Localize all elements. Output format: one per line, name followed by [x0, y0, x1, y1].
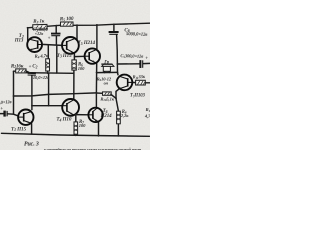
- svg-text:100: 100: [78, 66, 85, 71]
- wire T3 emitter to R6: [73, 53, 75, 60]
- wire T5 collector: [96, 25, 98, 49]
- wire C2 down / T1 collector: [31, 76, 33, 110]
- svg-text:Рис. 3: Рис. 3: [24, 142, 39, 148]
- node rail C6: [113, 24, 115, 26]
- wire R4 bottom: [47, 71, 49, 73]
- wire T1 emitter: [31, 124, 33, 134]
- wire C5 right to edge: [143, 62, 150, 64]
- wire T2 base to T3 base: [42, 44, 62, 45]
- svg-text:и приведена на рисунке схема у: и приведена на рисунке схема усилителя н…: [44, 147, 142, 150]
- resistor R3 hatch: [36, 26, 46, 29]
- svg-text:4,7: 4,7: [144, 114, 150, 119]
- node ground R8: [118, 135, 120, 137]
- wire T7 emitter vertical: [116, 89, 119, 99]
- svg-text:+: +: [29, 65, 32, 70]
- wire emitter bus y73: [26, 72, 74, 75]
- speaker Gr: [101, 64, 114, 71]
- transistor T3: [62, 37, 79, 54]
- wire T3 collector: [76, 25, 78, 40]
- node speaker bus T7 collector: [117, 72, 119, 74]
- wire R2 left vertical: [13, 71, 15, 96]
- wire input left: [0, 113, 4, 115]
- paper background: [0, 0, 150, 150]
- transistor T4: [62, 99, 79, 116]
- svg-text:R105,1к: R105,1к: [100, 96, 114, 102]
- resistor R4 vertical: [46, 59, 50, 71]
- node rail T3 collector: [76, 24, 78, 26]
- wire input to T1 base: [8, 114, 19, 116]
- wire T4 emitter to T6 base: [76, 114, 89, 116]
- capacitor C5 plates: [140, 60, 142, 68]
- wire x48.5 vertical: [48, 73, 50, 106]
- resistor R8 hatch: [117, 114, 120, 120]
- svg-text:П214: П214: [100, 114, 113, 119]
- wire R9 left: [96, 92, 102, 94]
- svg-text:R5 100: R5 100: [60, 16, 74, 22]
- wire C5 left: [117, 63, 139, 65]
- wire R2 lower vertical: [13, 96, 15, 114]
- transistor T2: [27, 37, 42, 52]
- svg-text:2,2к: 2,2к: [120, 113, 129, 118]
- resistor R3: [33, 24, 47, 29]
- wire R7 top: [75, 114, 77, 122]
- svg-text:Т7П103: Т7П103: [130, 94, 145, 99]
- wire bottom ground rail: [2, 133, 150, 136]
- svg-text:5000,0×12в: 5000,0×12в: [126, 32, 149, 38]
- resistor R7 vertical: [74, 122, 78, 134]
- wire top supply rail: [27, 23, 150, 28]
- svg-text:Т4 П10: Т4 П10: [56, 117, 72, 123]
- wire speaker legs: [104, 71, 106, 72]
- wire T7 base to R10: [132, 81, 135, 83]
- wire T5 base: [75, 55, 85, 57]
- wire R7 bottom: [75, 134, 77, 135]
- svg-text:Гр: Гр: [103, 60, 110, 65]
- transistor T6: [88, 108, 102, 122]
- wire C6 top: [113, 24, 115, 31]
- svg-text:Т3 П15: Т3 П15: [57, 53, 72, 59]
- svg-text:С2: С2: [32, 65, 37, 70]
- resistor R6 hatch: [72, 63, 76, 70]
- wire T7 emitter to R8: [116, 98, 118, 111]
- node T4 base: [31, 105, 33, 107]
- wire R9 right slope: [111, 95, 115, 99]
- capacitor C6 plates: [109, 32, 119, 34]
- capacitor C2 plates: [28, 73, 36, 75]
- resistor R10 hatch: [138, 81, 146, 85]
- node rail T5 collector: [96, 24, 98, 26]
- transistor T5: [85, 48, 100, 63]
- resistor R5: [61, 22, 74, 26]
- node feedback T1 collector: [31, 95, 33, 97]
- capacitor C1 (input electrolytic): [5, 111, 8, 117]
- node emitter bus R4: [47, 72, 49, 74]
- node T4 emitter T6 base: [75, 114, 77, 116]
- node T6 collector R9: [96, 92, 98, 94]
- svg-text:Т1 П15: Т1 П15: [11, 126, 27, 132]
- node emitter bus T2: [29, 72, 31, 74]
- resistor R10 in T7 base: [136, 80, 146, 85]
- svg-text:10,0×12в: 10,0×12в: [33, 75, 49, 80]
- wire R8 bottom: [117, 124, 119, 136]
- wire T6 emitter: [98, 122, 100, 136]
- node rail C4: [55, 25, 57, 27]
- svg-text:R216к: R216к: [11, 63, 24, 69]
- node base wire C4: [56, 44, 58, 46]
- wire R10 right to edge: [145, 82, 150, 84]
- node feedback R2: [13, 95, 15, 97]
- resistor R9: [103, 92, 112, 95]
- wire R4 top: [47, 45, 49, 59]
- node ground T6 emitter: [98, 135, 100, 137]
- wire speaker bottom bus: [97, 71, 118, 73]
- transistor T7: [117, 75, 133, 91]
- svg-text:R4 4,7к: R4 4,7к: [35, 54, 50, 60]
- resistor R7 hatch: [74, 125, 77, 131]
- transistor T1: [18, 110, 33, 125]
- svg-text:R3 1к: R3 1к: [33, 18, 45, 24]
- resistor R2 hatch: [18, 70, 26, 73]
- wire T5 emitter bus: [95, 64, 97, 108]
- wire C4 top: [55, 26, 57, 33]
- node input R2: [13, 113, 15, 115]
- svg-text:+: +: [48, 36, 51, 41]
- node ground T1 emitter: [31, 133, 33, 135]
- wire R6 bottom to T4 collector: [73, 70, 75, 100]
- node ground R7: [75, 134, 77, 136]
- wire R2 left: [14, 70, 16, 72]
- node T7 emitter R8: [115, 97, 117, 99]
- svg-text:+: +: [0, 107, 3, 112]
- node base wire R4: [48, 44, 50, 46]
- resistor R5 hatch: [63, 23, 72, 26]
- resistor R6 vertical: [72, 60, 76, 70]
- wire R2 right: [26, 71, 30, 73]
- resistor R4 hatch: [46, 62, 49, 68]
- svg-text:П13: П13: [14, 39, 24, 44]
- node rail T2 collector: [27, 27, 29, 29]
- wire divider vertical: [56, 45, 58, 73]
- svg-text:100: 100: [79, 123, 86, 128]
- svg-text:ом: ом: [104, 80, 109, 85]
- node speaker bus T5 emitter: [96, 72, 98, 74]
- resistor R9 hatch: [105, 92, 112, 95]
- node emitter bus divider: [56, 72, 58, 74]
- capacitor C4 plates: [51, 34, 61, 36]
- resistor R8 vertical: [117, 111, 121, 124]
- node C5 branch: [117, 63, 119, 65]
- svg-text:Т5 П214: Т5 П214: [78, 40, 96, 46]
- svg-text:R11: R11: [146, 107, 150, 113]
- wire T2 collector to rail: [27, 28, 29, 42]
- resistor R2: [16, 69, 26, 73]
- svg-text:5,0×12в: 5,0×12в: [0, 99, 12, 105]
- wire long feedback: [14, 93, 97, 96]
- svg-text:+: +: [145, 57, 148, 62]
- wire C6 bottom / T7 collector branch: [117, 35, 118, 75]
- wire T4 base: [32, 105, 62, 107]
- svg-text:×12в: ×12в: [35, 31, 44, 36]
- wire C4 bottom to base wire: [55, 36, 57, 45]
